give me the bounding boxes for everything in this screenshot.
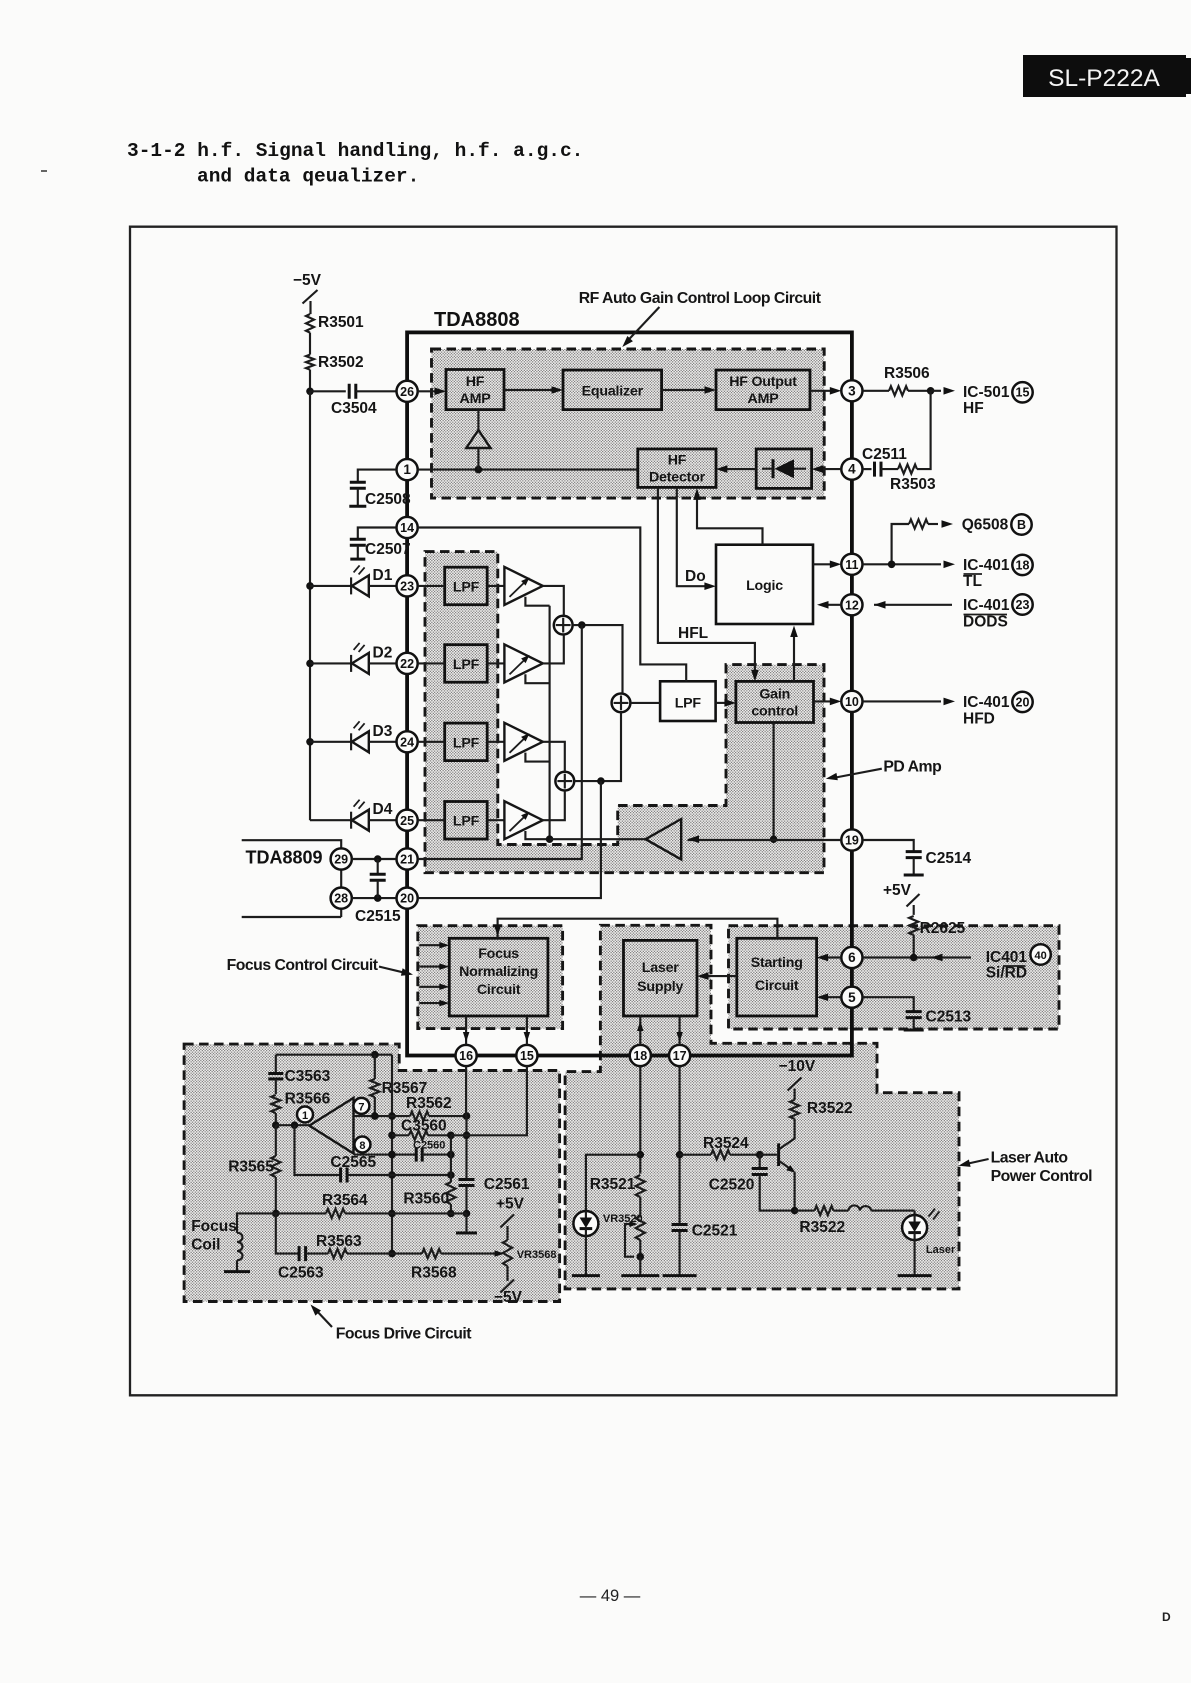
pin 17 TDA8808 <box>669 1045 690 1066</box>
wire Logic to HF Detector <box>693 488 762 544</box>
svg-text:R3522: R3522 <box>799 1219 845 1236</box>
PD Amp label <box>826 759 941 781</box>
svg-text:AMP: AMP <box>748 391 779 407</box>
Laser Supply / Laser power dashed region <box>565 925 959 1289</box>
Logic block <box>716 545 813 624</box>
svg-text:23: 23 <box>1016 598 1030 612</box>
svg-text:R3565: R3565 <box>228 1159 274 1176</box>
pin 26 TDA8808 <box>397 381 418 402</box>
svg-text:HF Output: HF Output <box>729 374 797 390</box>
wire pin 18 branch node <box>637 1066 645 1174</box>
IC TDA8809 partial outline <box>242 840 342 917</box>
pin 18 TDA8808 <box>630 1045 651 1066</box>
svg-text:28: 28 <box>334 892 348 906</box>
net IC-401 HFD pin 10 <box>863 692 1033 728</box>
pin 20 TDA8808 <box>397 888 418 909</box>
variable resistor VR3568 <box>503 1226 557 1281</box>
svg-text:control: control <box>751 704 798 720</box>
resistor R3563 <box>306 1233 392 1258</box>
capacitor C2561 <box>459 1176 530 1217</box>
Gain control block <box>736 681 814 722</box>
-5V supply VR3568 <box>494 1280 523 1307</box>
pin 16 TDA8808 <box>456 1045 477 1066</box>
amplifier A2 <box>504 644 542 682</box>
wire op-amp input <box>276 1121 310 1129</box>
Starting Circuit block <box>737 938 817 1016</box>
RF AGC label and pointer <box>579 290 822 347</box>
svg-text:D: D <box>1162 1610 1171 1624</box>
svg-text:Power Control: Power Control <box>991 1168 1093 1185</box>
svg-text:15: 15 <box>520 1049 534 1063</box>
Equalizer block <box>563 370 662 410</box>
HF Detector block <box>638 449 716 487</box>
Starting Circuit dashed region <box>729 926 1060 1029</box>
svg-text:HF: HF <box>668 453 687 469</box>
pin 10 TDA8808 <box>841 691 862 712</box>
svg-text:4: 4 <box>848 462 856 477</box>
svg-text:Starting: Starting <box>751 955 803 971</box>
wire pin 16 column <box>463 1066 471 1179</box>
LPF block 2 <box>445 645 488 683</box>
resistor R3501 <box>306 314 364 333</box>
svg-text:C2520: C2520 <box>709 1177 755 1194</box>
resistor R3567 <box>370 1055 427 1116</box>
resistor R3522 emitter <box>795 1206 845 1236</box>
capacitor C2514 <box>863 840 972 875</box>
pin 22 TDA8808 <box>397 653 418 674</box>
ground laser diode <box>898 1240 932 1276</box>
wire diode block to HF Detector <box>716 465 756 473</box>
svg-text:C2563: C2563 <box>278 1265 324 1282</box>
photodiode D4 <box>310 800 396 831</box>
net Do <box>677 487 716 590</box>
svg-text:Normalizing: Normalizing <box>459 964 538 980</box>
wire <box>306 370 346 396</box>
capacitor C2521 <box>663 1223 738 1276</box>
adder S2 <box>555 772 574 791</box>
ground C2561 <box>456 1214 477 1234</box>
svg-text:1: 1 <box>403 462 411 477</box>
+5V supply R2625 <box>883 882 920 915</box>
pin 24 TDA8808 <box>397 731 418 752</box>
svg-text:D4: D4 <box>373 801 393 818</box>
svg-text:20: 20 <box>400 892 414 906</box>
model label SL-P222A <box>1023 55 1191 97</box>
svg-text:HFD: HFD <box>963 711 995 728</box>
svg-text:C2521: C2521 <box>692 1223 738 1240</box>
wire HF AMP to Equalizer <box>504 386 563 394</box>
resistor R2625 <box>909 916 966 958</box>
pin 15 TDA8808 <box>516 1045 537 1066</box>
wire pin 20 riser <box>418 777 605 898</box>
svg-text:Q6508: Q6508 <box>962 517 1009 534</box>
wire pin 18 to Laser Supply <box>637 1016 644 1045</box>
node junction R3506/R3503 <box>927 387 955 395</box>
PD amplifier <box>646 819 682 859</box>
svg-text:C2511: C2511 <box>862 446 907 463</box>
svg-text:R3521: R3521 <box>590 1176 636 1193</box>
Focus Normalizing Circuit block <box>449 938 548 1016</box>
photodiode D2 <box>310 643 396 674</box>
wire amp4 out to adder S2 <box>543 791 565 821</box>
laser diode <box>902 1209 956 1257</box>
svg-text:20: 20 <box>1016 695 1030 709</box>
svg-text:R3564: R3564 <box>322 1192 368 1209</box>
capacitor C2560 <box>354 1140 455 1162</box>
wire LPF to amp <box>418 585 505 587</box>
adder S3 <box>612 694 631 713</box>
wire Logic to pin 11 <box>813 561 841 569</box>
svg-text:6: 6 <box>848 950 856 965</box>
feedback column <box>388 1055 396 1258</box>
ferrite bead <box>834 1205 915 1210</box>
svg-text:C3560: C3560 <box>401 1118 447 1135</box>
Focus Drive Circuit label <box>311 1305 473 1343</box>
svg-text:LPF: LPF <box>453 657 480 673</box>
wire Equalizer to HF Output AMP <box>662 386 716 394</box>
svg-text:+5V: +5V <box>883 882 912 899</box>
pin 19 TDA8808 <box>841 829 862 850</box>
svg-text:R3503: R3503 <box>890 476 936 493</box>
svg-text:AMP: AMP <box>460 391 491 407</box>
transistor Q3520 <box>760 1119 799 1215</box>
monitor photodiode <box>573 1155 640 1236</box>
svg-text:Circuit: Circuit <box>477 982 521 998</box>
pin 25 TDA8808 <box>397 810 418 831</box>
svg-text:16: 16 <box>459 1049 473 1063</box>
svg-text:VR3568: VR3568 <box>517 1249 557 1261</box>
wire LPF to amp <box>418 819 505 821</box>
wire Gain control to pin 19 line <box>770 723 778 844</box>
svg-text:Do: Do <box>685 568 706 585</box>
svg-text:Detector: Detector <box>649 470 706 486</box>
svg-text:Equalizer: Equalizer <box>582 384 644 400</box>
resistor R3506 <box>863 365 931 395</box>
svg-text:Circuit: Circuit <box>755 978 799 994</box>
capacitor C2520 <box>709 1155 795 1211</box>
ground focus coil <box>224 1270 250 1273</box>
svg-text:HF: HF <box>466 374 485 390</box>
HF Output AMP block <box>716 370 810 410</box>
adder S1 <box>554 616 573 635</box>
LPF block 4 <box>445 802 488 840</box>
svg-text:C2513: C2513 <box>926 1009 972 1026</box>
svg-text:19: 19 <box>845 834 859 848</box>
svg-text:D2: D2 <box>373 644 393 661</box>
LPF block 1 <box>445 567 488 605</box>
capacitor C3563 <box>268 1055 330 1094</box>
RF AGC dashed region <box>432 349 825 498</box>
wire adder S1 to adder S3 <box>573 625 623 693</box>
wire pin26 to HF AMP <box>418 388 446 396</box>
svg-text:RF Auto Gain Control Loop Circ: RF Auto Gain Control Loop Circuit <box>579 290 822 307</box>
svg-text:R3560: R3560 <box>403 1191 449 1208</box>
capacitor C2563 <box>276 1213 324 1281</box>
svg-text:R2625: R2625 <box>920 920 966 937</box>
svg-text:R3502: R3502 <box>318 354 364 371</box>
Focus Drive dashed region <box>184 1044 559 1301</box>
net IC401 Si/RD pin 6 <box>863 944 1051 981</box>
capacitor C3560 <box>392 1118 455 1140</box>
svg-text:SL-P222A: SL-P222A <box>1048 65 1160 92</box>
wire pin 14 to LPF top <box>418 528 687 682</box>
LPF center block <box>660 681 716 721</box>
svg-text:1: 1 <box>302 1110 308 1122</box>
pin 28 TDA8809 <box>331 888 352 909</box>
svg-text:14: 14 <box>400 521 414 535</box>
op-amp block <box>297 1098 370 1154</box>
svg-text:C2515: C2515 <box>355 908 401 925</box>
wire LPF to amp <box>418 662 505 664</box>
svg-text:21: 21 <box>400 853 414 867</box>
pin 23 TDA8808 <box>397 575 418 596</box>
svg-text:C2565: C2565 <box>330 1154 376 1171</box>
svg-text:11: 11 <box>845 558 858 572</box>
svg-text:Logic: Logic <box>746 578 783 594</box>
svg-text:26: 26 <box>400 385 414 399</box>
svg-text:18: 18 <box>1016 558 1030 572</box>
svg-text:C2561: C2561 <box>484 1176 530 1193</box>
focus coil <box>191 1213 276 1271</box>
capacitor C2565 <box>295 1125 455 1182</box>
HF AMP block <box>446 370 504 410</box>
pin 4 TDA8808 <box>841 459 862 480</box>
capacitor C2515 <box>355 859 401 925</box>
wire pin 1 line <box>418 466 638 474</box>
svg-text:IC-401: IC-401 <box>963 694 1010 711</box>
wire Laser Supply to pin 17 <box>676 1016 683 1045</box>
svg-text:C3504: C3504 <box>331 400 377 417</box>
svg-text:TL: TL <box>963 573 982 590</box>
capacitor C2511 <box>862 446 907 477</box>
pin 1 TDA8808 <box>397 459 418 480</box>
svg-text:25: 25 <box>400 814 414 828</box>
wire pin 12 to Logic <box>817 601 841 609</box>
svg-text:HF: HF <box>963 400 984 417</box>
svg-text:R3563: R3563 <box>316 1233 362 1250</box>
resistor R3522 collector <box>790 1089 853 1119</box>
diode block U1 <box>756 449 811 488</box>
resistor R3502 <box>306 354 364 371</box>
left photodiode supply rail <box>306 391 314 820</box>
svg-text:B: B <box>1017 518 1026 532</box>
svg-text:−5V: −5V <box>494 1289 523 1306</box>
capacitor C2507 <box>350 528 411 560</box>
wire PD amp output <box>550 838 646 840</box>
Focus Control Circuit label <box>227 957 413 976</box>
Laser Auto Power Control label <box>959 1150 1093 1186</box>
+5V supply VR3568 <box>496 1196 525 1228</box>
Laser Supply block <box>624 940 698 1016</box>
net Q6508 B <box>892 514 1032 564</box>
wire Focus Normalizing to pin 16 <box>463 1016 470 1045</box>
capacitor C2513 <box>863 997 972 1030</box>
capacitor C3504 <box>331 384 377 417</box>
Focus Drive top rail <box>276 1051 392 1059</box>
svg-text:IC-401: IC-401 <box>963 557 1010 574</box>
svg-text:Coil: Coil <box>191 1237 220 1254</box>
svg-text:C2507: C2507 <box>365 541 411 558</box>
wire <box>309 333 311 355</box>
svg-text:5: 5 <box>848 990 856 1005</box>
page number <box>580 1587 641 1605</box>
wire adder S2 to adder S3 <box>574 712 621 781</box>
svg-text:24: 24 <box>400 735 414 749</box>
svg-text:7: 7 <box>358 1101 364 1113</box>
svg-text:DODS: DODS <box>963 614 1008 631</box>
svg-text:D3: D3 <box>373 723 393 740</box>
wire adder S3 to LPF <box>630 702 660 704</box>
resistor R3565 <box>228 1125 280 1217</box>
svg-text:R3522: R3522 <box>807 1100 853 1117</box>
wire pin 28 to pin 20 <box>352 894 397 902</box>
svg-text:Focus: Focus <box>478 946 519 962</box>
svg-text:R3566: R3566 <box>285 1091 331 1108</box>
-5V supply <box>293 272 322 314</box>
wire pin 6 to Starting Circuit <box>817 954 842 962</box>
wire top link Focus Normalizing to Starting Circuit <box>494 919 778 939</box>
-10V supply <box>779 1058 816 1091</box>
net HFL <box>658 487 759 681</box>
resistor R3568 <box>392 1249 505 1282</box>
svg-text:R3562: R3562 <box>406 1095 452 1112</box>
svg-text:C2560: C2560 <box>413 1140 445 1152</box>
sheet mark D <box>1162 1610 1171 1624</box>
svg-text:Laser: Laser <box>642 960 680 976</box>
svg-text:−5V: −5V <box>293 272 322 289</box>
pin 11 TDA8808 <box>841 554 862 575</box>
wire op-amp pin 7 line <box>354 1112 410 1120</box>
pin 21 TDA8808 <box>397 848 418 869</box>
svg-text:40: 40 <box>1034 950 1046 962</box>
svg-text:D1: D1 <box>373 567 393 584</box>
svg-text:TDA8808: TDA8808 <box>434 309 520 331</box>
svg-text:— 49 —: — 49 — <box>580 1587 641 1605</box>
svg-text:Laser: Laser <box>926 1244 956 1256</box>
svg-text:29: 29 <box>334 853 348 867</box>
capacitor C2508 <box>349 470 411 508</box>
svg-text:R3524: R3524 <box>703 1135 749 1152</box>
wire Focus Normalizing to pin 15 <box>524 1016 531 1045</box>
photodiode D3 <box>310 721 396 752</box>
wire Gain control to Logic <box>790 626 798 682</box>
svg-text:PD Amp: PD Amp <box>883 759 941 776</box>
pin 12 TDA8808 <box>841 594 862 615</box>
amplifier A3 <box>504 723 542 761</box>
buffer amp under HF AMP <box>466 410 490 470</box>
wire pin 17 column <box>676 1066 684 1224</box>
resistor R3521 <box>590 1175 645 1216</box>
svg-text:C3563: C3563 <box>285 1068 331 1085</box>
svg-text:3-1-2 h.f. Signal handling, h.: 3-1-2 h.f. Signal handling, h.f. a.g.c. <box>127 140 583 162</box>
pin 29 TDA8809 <box>331 848 352 869</box>
wire HF Output AMP to pin 3 <box>810 387 841 395</box>
svg-text:IC-501: IC-501 <box>963 384 1010 401</box>
Focus Normalizing input arrows <box>419 942 449 1006</box>
svg-text:18: 18 <box>633 1049 647 1063</box>
svg-text:R3568: R3568 <box>411 1265 457 1282</box>
resistor R3524 <box>680 1135 764 1159</box>
svg-text:23: 23 <box>400 580 414 594</box>
wire amp3 out to adder S2 <box>543 742 565 772</box>
wire pin 15 link <box>451 1066 527 1135</box>
svg-text:LPF: LPF <box>675 696 702 712</box>
svg-text:R3501: R3501 <box>318 314 364 331</box>
resistor R3503 <box>881 391 936 493</box>
ground monitor photodiode <box>572 1236 600 1276</box>
LPF block 3 <box>445 723 488 761</box>
svg-text:TDA8809: TDA8809 <box>246 848 323 868</box>
net IC-501 HF <box>963 382 1033 417</box>
svg-text:IC401: IC401 <box>986 949 1028 966</box>
resistor R3564 <box>276 1192 467 1218</box>
wire amp2 out to adder S1 <box>543 635 564 664</box>
wire pin 29 to pin 21 <box>352 855 397 863</box>
svg-text:8: 8 <box>359 1140 365 1152</box>
LPF column and PD Amp dashed region <box>425 552 824 873</box>
svg-text:C2508: C2508 <box>365 491 411 508</box>
svg-text:Supply: Supply <box>637 979 683 995</box>
pin 14 TDA8808 <box>397 517 418 538</box>
wire pin 5 to Starting Circuit <box>817 993 842 1001</box>
svg-text:12: 12 <box>845 598 859 612</box>
pin 3 TDA8808 <box>841 380 862 401</box>
wire LPF to Gain control <box>716 699 736 707</box>
feedback rail from PD amp <box>525 597 553 843</box>
wire Starting Circuit to Laser Supply <box>697 972 737 980</box>
svg-text:Si/RD: Si/RD <box>986 965 1027 982</box>
wire amp1 out to adder S1 <box>543 586 564 616</box>
svg-text:Gain: Gain <box>759 687 790 703</box>
svg-text:HFL: HFL <box>678 625 708 642</box>
svg-text:10: 10 <box>845 695 859 709</box>
svg-text:IC-401: IC-401 <box>963 597 1010 614</box>
resistor R3560 <box>403 1135 455 1217</box>
svg-text:22: 22 <box>400 657 414 671</box>
photodiode D1 <box>310 565 396 596</box>
Focus Control dashed region <box>418 926 563 1029</box>
svg-text:and data qeualizer.: and data qeualizer. <box>197 166 419 188</box>
svg-text:−10V: −10V <box>779 1058 816 1075</box>
svg-text:VR3520: VR3520 <box>603 1213 643 1225</box>
svg-text:3: 3 <box>848 383 856 398</box>
wire pin 4 to diode block <box>812 465 842 473</box>
svg-text:LPF: LPF <box>453 814 480 830</box>
wire LPF to amp <box>418 741 505 743</box>
pin 5 TDA8808 <box>841 987 862 1008</box>
net IC-401 TL pin 11 <box>863 555 1033 590</box>
variable resistor VR3520 <box>603 1213 645 1260</box>
IC TDA8808 outline <box>407 309 852 1056</box>
svg-text:+5V: +5V <box>496 1196 525 1213</box>
svg-text:LPF: LPF <box>453 735 480 751</box>
svg-text:R3506: R3506 <box>884 365 930 382</box>
svg-text:Laser Auto: Laser Auto <box>991 1150 1069 1167</box>
amplifier A4 <box>504 801 542 839</box>
svg-text:Focus Drive Circuit: Focus Drive Circuit <box>336 1326 473 1343</box>
page title <box>41 140 583 188</box>
resistor R3562 <box>406 1095 470 1121</box>
svg-text:15: 15 <box>1016 386 1030 400</box>
resistor R3566 <box>271 1091 330 1129</box>
wire pin 19 to PD amp <box>688 835 842 843</box>
svg-text:Focus: Focus <box>191 1218 237 1235</box>
wire <box>356 390 397 392</box>
amplifier A1 <box>504 567 542 605</box>
outer border frame <box>130 227 1117 1396</box>
pin 6 TDA8808 <box>841 947 862 968</box>
svg-text:17: 17 <box>673 1049 687 1063</box>
